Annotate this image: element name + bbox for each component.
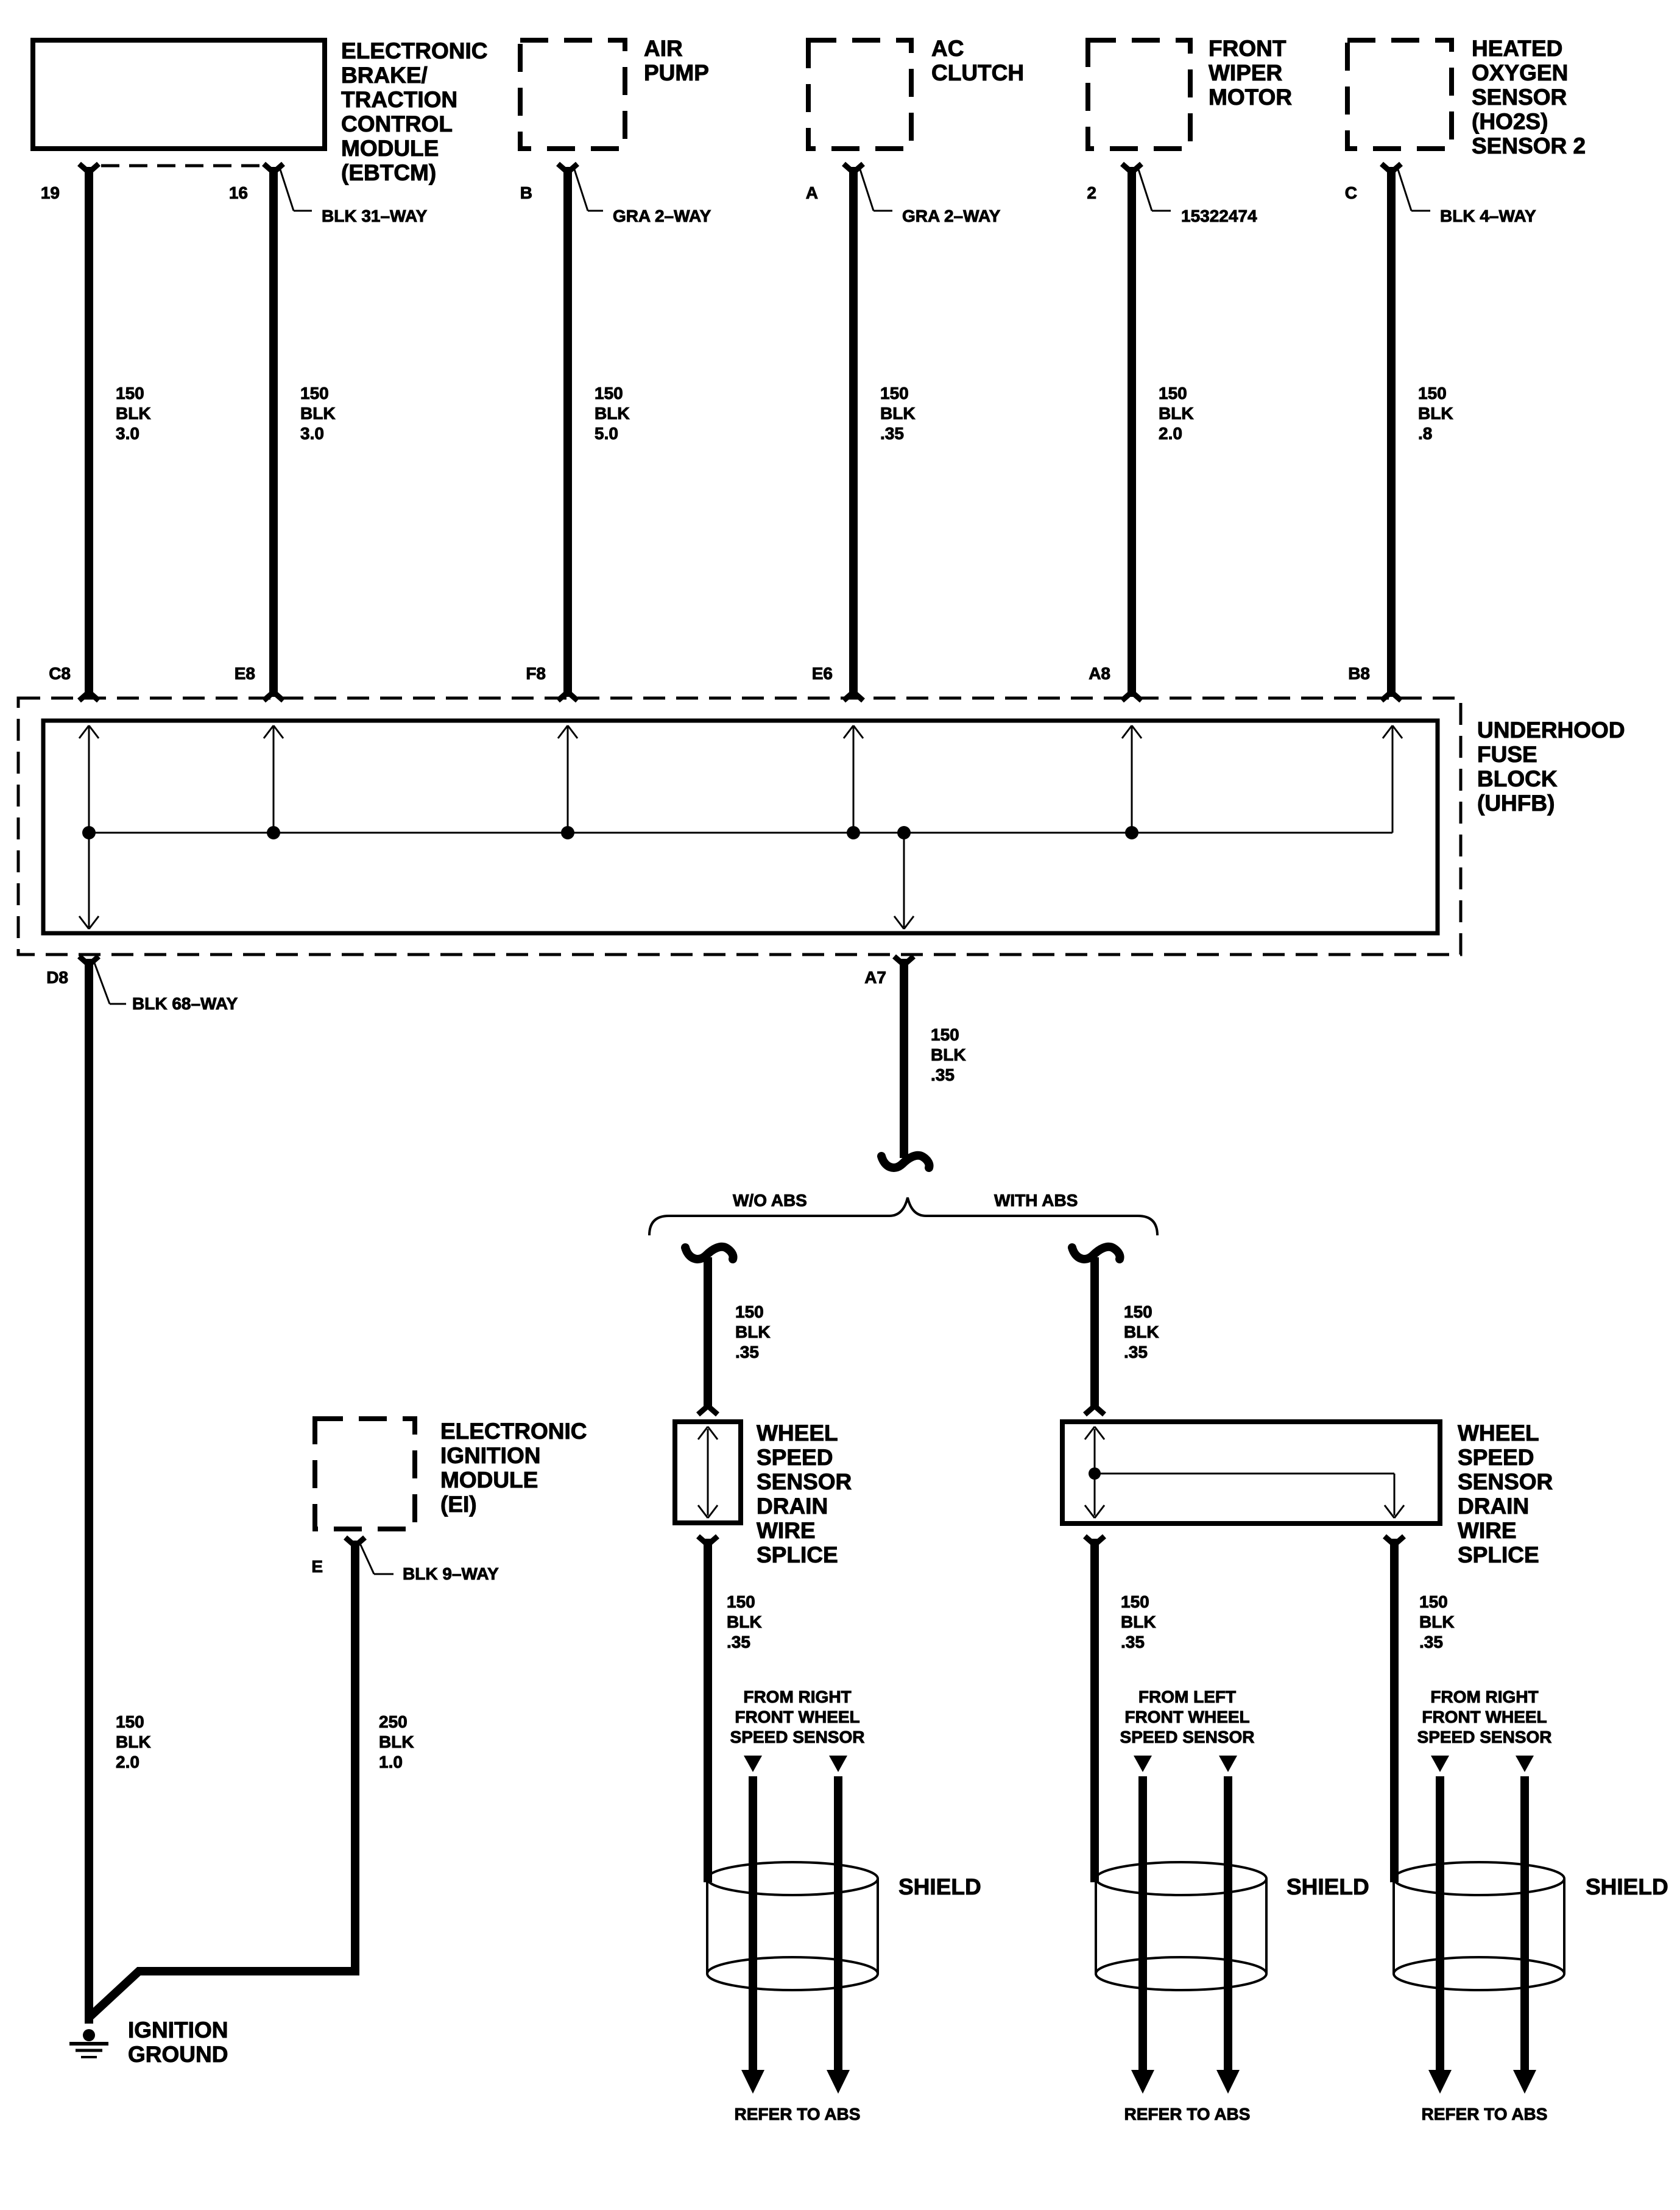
terminal chevron into right splice	[1085, 1406, 1104, 1414]
module EBTCM box	[33, 40, 325, 149]
svg-text:150: 150	[880, 384, 909, 403]
svg-text:16: 16	[229, 183, 248, 202]
svg-text:150: 150	[116, 384, 144, 403]
svg-text:REFER TO ABS: REFER TO ABS	[735, 2105, 861, 2124]
svg-text:2.0: 2.0	[116, 1753, 139, 1771]
svg-text:WIRE: WIRE	[1458, 1518, 1517, 1543]
junction dot E8	[267, 826, 280, 839]
svg-text:B8: B8	[1348, 664, 1370, 683]
option brace W/O ABS / WITH ABS	[649, 1198, 1157, 1235]
internal branch A8 with up arrow	[1131, 725, 1133, 833]
svg-text:(HO2S): (HO2S)	[1472, 109, 1548, 134]
leader line BLK 9-WAY	[361, 1545, 374, 1574]
right front wheel with abs sensor wire 1 start triangle	[1431, 1756, 1449, 1772]
right front wheel w/o abs sensor wire 1	[749, 1776, 757, 2071]
wire 150 BLK 3.0 from EBTCM pin 19 to UHFB C8	[85, 167, 93, 697]
svg-text:BLK: BLK	[116, 404, 151, 423]
component HO2S SENSOR 2 dashed box	[1347, 40, 1452, 149]
right front wheel w/o abs sensor wire 1 arrowhead	[741, 2070, 764, 2094]
shield cylinder left front wheel with abs	[1096, 1862, 1266, 1895]
svg-text:SENSOR: SENSOR	[1458, 1469, 1553, 1494]
wire 150 BLK .35 from UHFB A7	[900, 959, 908, 1158]
svg-text:150: 150	[1419, 1592, 1448, 1611]
svg-text:250: 250	[379, 1712, 408, 1731]
svg-text:GROUND: GROUND	[128, 2042, 228, 2067]
svg-text:.8: .8	[1418, 424, 1432, 443]
right splice junction dot	[1089, 1467, 1101, 1480]
svg-text:19: 19	[41, 183, 60, 202]
left front wheel with abs sensor wire 2 arrowhead	[1216, 2070, 1240, 2094]
right splice internal tap line with down arrow	[1095, 1473, 1394, 1475]
internal branch E8 with up arrow	[273, 725, 275, 833]
leader line BLK 31-WAY	[279, 166, 294, 211]
wire 150 BLK .35 from AC CLUTCH to UHFB E6	[849, 167, 858, 697]
svg-text:150: 150	[727, 1592, 755, 1611]
pin C terminal chevron	[1382, 164, 1401, 172]
svg-text:BLK: BLK	[727, 1612, 762, 1631]
terminal A8 entry chevron	[1122, 692, 1142, 701]
svg-text:TRACTION: TRACTION	[341, 87, 457, 112]
pin 19 terminal chevron	[79, 164, 99, 172]
svg-text:IGNITION: IGNITION	[440, 1443, 540, 1468]
svg-text:BLK: BLK	[595, 404, 630, 423]
pin E terminal chevron	[345, 1537, 365, 1546]
svg-text:5.0: 5.0	[595, 424, 618, 443]
svg-text:SPEED: SPEED	[1458, 1445, 1534, 1470]
connector face EBTCM dashed line	[101, 164, 264, 168]
fuse block UHFB outer dashed boundary	[18, 698, 1461, 955]
svg-text:150: 150	[735, 1302, 764, 1321]
svg-text:BLK: BLK	[735, 1322, 771, 1341]
internal branch C8 with up arrow	[88, 725, 90, 833]
svg-text:150: 150	[1124, 1302, 1152, 1321]
internal branch D8 with down arrow	[88, 833, 90, 927]
svg-text:FUSE: FUSE	[1477, 742, 1537, 767]
svg-text:BLOCK: BLOCK	[1477, 766, 1558, 791]
leader line BLK 68-WAY	[94, 961, 110, 1004]
right front wheel with abs sensor wire 2 arrowhead	[1513, 2070, 1536, 2094]
svg-text:C: C	[1345, 183, 1357, 202]
right front wheel w/o abs sensor wire 1 start triangle	[744, 1756, 762, 1772]
circuit continuation hook left branch	[685, 1247, 733, 1259]
circuit continuation hook A7	[881, 1156, 930, 1168]
svg-text:WIRE: WIRE	[757, 1518, 816, 1543]
shield cylinder right front wheel w/o abs	[707, 1862, 878, 1895]
wire 150 BLK .8 from HO2S to UHFB B8	[1387, 167, 1396, 697]
svg-text:.35: .35	[735, 1343, 759, 1361]
pin B terminal chevron	[558, 164, 577, 172]
terminal chevron below left splice	[698, 1536, 718, 1545]
svg-text:OXYGEN: OXYGEN	[1472, 60, 1568, 85]
svg-text:(UHFB): (UHFB)	[1477, 791, 1555, 816]
svg-text:CONTROL: CONTROL	[341, 111, 453, 136]
left front wheel with abs sensor wire 1 start triangle	[1134, 1756, 1152, 1772]
svg-text:FRONT: FRONT	[1209, 36, 1286, 61]
svg-text:BLK: BLK	[1159, 404, 1194, 423]
svg-text:WIPER: WIPER	[1209, 60, 1282, 85]
svg-text:SPEED SENSOR: SPEED SENSOR	[1417, 1728, 1552, 1746]
svg-text:A7: A7	[864, 968, 886, 987]
svg-text:FROM LEFT: FROM LEFT	[1138, 1687, 1236, 1706]
svg-text:(EI): (EI)	[440, 1492, 477, 1517]
terminal chevron below right splice right output	[1385, 1536, 1404, 1545]
svg-text:ELECTRONIC: ELECTRONIC	[341, 38, 488, 63]
left splice internal double arrow	[707, 1429, 709, 1516]
svg-text:150: 150	[1121, 1592, 1149, 1611]
terminal F8 entry chevron	[558, 692, 577, 701]
svg-text:C8: C8	[49, 664, 71, 683]
internal branch A7 with down arrow	[903, 833, 905, 927]
leader line 15322474	[1137, 166, 1152, 211]
right front wheel w/o abs sensor wire 2	[834, 1776, 842, 2071]
svg-text:BLK 68–WAY: BLK 68–WAY	[132, 994, 238, 1013]
component AC CLUTCH dashed box	[808, 40, 911, 149]
svg-text:BLK: BLK	[1124, 1322, 1159, 1341]
wire 150 BLK 2.0 from FRONT WIPER MOTOR to UHFB A8	[1128, 167, 1136, 697]
circuit continuation hook right branch	[1072, 1247, 1120, 1259]
right front wheel w/o abs sensor wire 2 start triangle	[829, 1756, 847, 1772]
internal branch F8 with up arrow	[567, 725, 569, 833]
internal ground bus line	[89, 832, 1392, 834]
wire 250 BLK 1.0 from EI pin E to ignition ground	[89, 1541, 355, 2018]
left front wheel with abs sensor wire 2	[1224, 1776, 1232, 2071]
svg-text:REFER TO ABS: REFER TO ABS	[1124, 2105, 1251, 2124]
svg-text:HEATED: HEATED	[1472, 36, 1562, 61]
ignition ground symbol bars	[69, 2042, 108, 2046]
terminal E8 entry chevron	[264, 692, 283, 701]
svg-text:AC: AC	[931, 36, 964, 61]
svg-text:REFER TO ABS: REFER TO ABS	[1422, 2105, 1548, 2124]
svg-text:.35: .35	[1124, 1343, 1148, 1361]
right front wheel with abs sensor wire 2	[1520, 1776, 1529, 2071]
svg-text:AIR: AIR	[644, 36, 683, 61]
terminal A7 exit chevron	[894, 956, 914, 965]
right front wheel w/o abs sensor wire 2 arrowhead	[827, 2070, 850, 2094]
junction dot A8	[1125, 826, 1138, 839]
junction dot F8	[561, 826, 574, 839]
svg-text:B: B	[520, 183, 532, 202]
terminal B8 entry chevron	[1382, 692, 1401, 701]
svg-text:WHEEL: WHEEL	[757, 1421, 838, 1446]
svg-text:FROM RIGHT: FROM RIGHT	[743, 1687, 851, 1706]
svg-text:150: 150	[116, 1712, 144, 1731]
svg-text:DRAIN: DRAIN	[1458, 1494, 1529, 1519]
svg-text:E8: E8	[235, 664, 255, 683]
svg-text:3.0: 3.0	[300, 424, 324, 443]
junction dot C8	[82, 826, 96, 839]
fuse block UHFB inner box	[43, 721, 1438, 933]
left front wheel with abs sensor wire 1	[1138, 1776, 1147, 2071]
svg-text:150: 150	[300, 384, 329, 403]
svg-text:SPLICE: SPLICE	[757, 1542, 838, 1567]
svg-text:CLUTCH: CLUTCH	[931, 60, 1024, 85]
svg-text:W/O ABS: W/O ABS	[733, 1191, 807, 1210]
svg-text:SHIELD: SHIELD	[898, 1874, 981, 1899]
svg-text:PUMP: PUMP	[644, 60, 709, 85]
svg-text:FRONT WHEEL: FRONT WHEEL	[1422, 1707, 1547, 1726]
svg-text:BLK: BLK	[880, 404, 916, 423]
svg-text:ELECTRONIC: ELECTRONIC	[440, 1419, 587, 1444]
left front wheel with abs sensor wire 1 arrowhead	[1131, 2070, 1154, 2094]
svg-text:MODULE: MODULE	[440, 1467, 538, 1492]
svg-text:DRAIN: DRAIN	[757, 1494, 828, 1519]
pin A terminal chevron	[844, 164, 863, 172]
svg-text:SHIELD: SHIELD	[1286, 1874, 1369, 1899]
svg-text:.35: .35	[931, 1065, 955, 1084]
svg-text:GRA 2–WAY: GRA 2–WAY	[613, 207, 711, 225]
svg-text:BLK: BLK	[379, 1732, 414, 1751]
terminal C8 entry chevron	[79, 692, 99, 701]
svg-text:GRA 2–WAY: GRA 2–WAY	[902, 207, 1001, 225]
svg-text:15322474: 15322474	[1181, 207, 1257, 225]
svg-text:SPEED: SPEED	[757, 1445, 833, 1470]
svg-text:FRONT WHEEL: FRONT WHEEL	[1124, 1707, 1249, 1726]
pin 2 terminal chevron	[1122, 164, 1142, 172]
svg-text:.35: .35	[727, 1633, 750, 1651]
svg-text:BLK: BLK	[1419, 1612, 1455, 1631]
right front wheel with abs sensor wire 1 arrowhead	[1428, 2070, 1452, 2094]
terminal D8 exit chevron	[79, 956, 99, 965]
svg-text:150: 150	[1159, 384, 1187, 403]
svg-text:BRAKE/: BRAKE/	[341, 63, 428, 88]
leader line GRA 2-WAY air pump	[573, 166, 588, 211]
svg-text:BLK: BLK	[1418, 404, 1453, 423]
terminal chevron into left splice	[698, 1406, 718, 1414]
internal branch B8 riser with up arrow	[1392, 725, 1394, 833]
svg-text:D8: D8	[46, 968, 68, 987]
svg-text:WITH ABS: WITH ABS	[994, 1191, 1078, 1210]
leader line GRA 2-WAY ac clutch	[859, 166, 874, 211]
svg-text:A8: A8	[1089, 664, 1110, 683]
svg-text:WHEEL: WHEEL	[1458, 1421, 1539, 1446]
svg-text:E: E	[311, 1557, 323, 1576]
svg-text:150: 150	[1418, 384, 1447, 403]
svg-text:FROM RIGHT: FROM RIGHT	[1430, 1687, 1538, 1706]
left front wheel with abs sensor wire 2 start triangle	[1219, 1756, 1237, 1772]
svg-text:MOTOR: MOTOR	[1209, 85, 1292, 110]
shield cylinder right front wheel with abs	[1394, 1862, 1564, 1895]
wire 150 BLK 3.0 from EBTCM pin 16 to UHFB E8	[269, 167, 278, 697]
svg-text:IGNITION: IGNITION	[128, 2018, 228, 2042]
svg-text:BLK 31–WAY: BLK 31–WAY	[322, 207, 428, 225]
svg-text:SENSOR: SENSOR	[1472, 85, 1567, 110]
svg-text:2: 2	[1087, 183, 1096, 202]
svg-text:SPEED SENSOR: SPEED SENSOR	[730, 1728, 865, 1746]
svg-text:BLK: BLK	[300, 404, 336, 423]
internal branch E6 with up arrow	[853, 725, 855, 833]
pin 16 terminal chevron	[264, 164, 283, 172]
wire 150 BLK 2.0 from UHFB D8 to ignition ground	[85, 959, 93, 2024]
svg-text:.35: .35	[1419, 1633, 1443, 1651]
component AIR PUMP dashed box	[520, 40, 625, 149]
wire 150 BLK .35 middle drain	[1090, 1539, 1099, 1882]
svg-text:E6: E6	[812, 664, 833, 683]
svg-text:SPEED SENSOR: SPEED SENSOR	[1120, 1728, 1255, 1746]
svg-text:SHIELD: SHIELD	[1586, 1874, 1668, 1899]
svg-text:2.0: 2.0	[1159, 424, 1182, 443]
terminal chevron below right splice left output	[1085, 1536, 1104, 1545]
svg-text:(EBTCM): (EBTCM)	[341, 160, 436, 185]
right front wheel with abs sensor wire 1	[1436, 1776, 1444, 2071]
wire 150 BLK .35 right branch	[1090, 1257, 1099, 1410]
svg-text:.35: .35	[1121, 1633, 1145, 1651]
component FRONT WIPER MOTOR dashed box	[1088, 40, 1190, 149]
module EI dashed box	[315, 1419, 415, 1529]
junction dot A7	[897, 826, 911, 839]
splice box wheel speed sensor drain wire right	[1062, 1422, 1440, 1523]
ignition ground symbol dot	[83, 2029, 95, 2041]
svg-text:BLK 4–WAY: BLK 4–WAY	[1440, 207, 1536, 225]
splice box wheel speed sensor drain wire left	[675, 1422, 741, 1523]
svg-text:.35: .35	[880, 424, 904, 443]
svg-text:1.0: 1.0	[379, 1753, 403, 1771]
right splice internal double arrow	[1094, 1429, 1096, 1516]
svg-text:SENSOR: SENSOR	[757, 1469, 852, 1494]
svg-text:MODULE: MODULE	[341, 136, 439, 161]
junction dot E6	[847, 826, 860, 839]
wire 150 BLK 5.0 from AIR PUMP to UHFB F8	[563, 167, 572, 697]
wire 150 BLK .35 right drain	[1390, 1539, 1399, 1882]
svg-text:A: A	[806, 183, 818, 202]
svg-text:SPLICE: SPLICE	[1458, 1542, 1539, 1567]
svg-text:BLK: BLK	[931, 1045, 966, 1064]
svg-text:UNDERHOOD: UNDERHOOD	[1477, 718, 1625, 743]
svg-text:BLK: BLK	[1121, 1612, 1156, 1631]
leader line BLK 4-WAY	[1397, 166, 1411, 211]
svg-text:FRONT WHEEL: FRONT WHEEL	[735, 1707, 859, 1726]
terminal E6 entry chevron	[844, 692, 863, 701]
wire 150 BLK .35 left branch	[704, 1257, 712, 1410]
svg-text:3.0: 3.0	[116, 424, 139, 443]
wire 150 BLK .35 left drain	[704, 1539, 712, 1882]
svg-text:150: 150	[595, 384, 623, 403]
svg-text:BLK: BLK	[116, 1732, 151, 1751]
svg-text:BLK 9–WAY: BLK 9–WAY	[403, 1564, 499, 1583]
svg-text:F8: F8	[526, 664, 546, 683]
svg-text:SENSOR 2: SENSOR 2	[1472, 133, 1586, 158]
svg-text:150: 150	[931, 1025, 959, 1044]
right front wheel with abs sensor wire 2 start triangle	[1516, 1756, 1534, 1772]
